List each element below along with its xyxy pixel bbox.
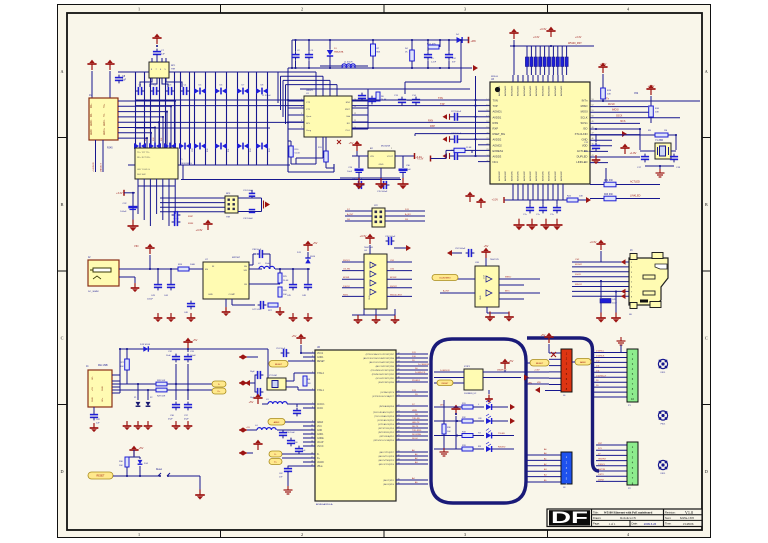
svg-text:R21 330: R21 330 <box>604 180 613 182</box>
svg-text:+3.3V: +3.3V <box>600 62 607 66</box>
svg-text:DIO-K: DIO-K <box>412 438 418 440</box>
svg-text:AVDD18C: AVDD18C <box>498 171 501 181</box>
svg-text:INTn: INTn <box>505 291 511 293</box>
svg-text:Title:: Title: <box>593 510 599 514</box>
svg-text:(XCK1/ADC8)PD5: (XCK1/ADC8)PD5 <box>377 419 395 422</box>
svg-text:MISO: MISO <box>581 104 588 108</box>
svg-text:(ADC13/OC1B/OC4B/PCINT)PB6: (ADC13/OC1B/OC4B/PCINT)PB6 <box>363 357 395 360</box>
svg-text:SD: SD <box>629 314 632 316</box>
svg-text:5: 5 <box>301 113 302 115</box>
svg-text:D: D <box>705 469 708 474</box>
svg-text:MOSI: MOSI <box>581 110 588 114</box>
svg-text:D0/RX: D0/RX <box>598 479 605 481</box>
svg-text:C51 10uF: C51 10uF <box>276 348 286 350</box>
svg-text:Y1 25M: Y1 25M <box>655 140 663 142</box>
svg-text:49: 49 <box>592 121 594 123</box>
svg-text:14: 14 <box>311 440 313 442</box>
svg-text:RESET: RESET <box>317 361 325 363</box>
svg-text:INTn: INTn <box>582 99 588 103</box>
svg-text:D0/TXN: D0/TXN <box>598 469 606 471</box>
svg-text:SSCK: SSCK <box>575 274 581 276</box>
svg-text:2: 2 <box>301 532 303 537</box>
svg-text:+3.3V: +3.3V <box>360 234 367 238</box>
svg-text:/MISO: /MISO <box>505 277 511 279</box>
svg-text:/SCS: /SCS <box>620 121 626 123</box>
svg-text:AGNDA33: AGNDA33 <box>535 85 538 96</box>
svg-text:RWT: RWT <box>345 109 351 111</box>
svg-text:10uF: 10uF <box>166 355 171 357</box>
svg-text:D0-WIZMISO: D0-WIZMISO <box>439 278 451 280</box>
svg-text:2: 2 <box>312 351 313 353</box>
svg-text:C38 10nF: C38 10nF <box>252 249 262 251</box>
svg-text:RST1: RST1 <box>343 294 349 296</box>
svg-text:10uH: 10uH <box>265 263 270 265</box>
svg-text:100nF: 100nF <box>190 355 196 357</box>
svg-text:Date:: Date: <box>632 522 638 526</box>
svg-text:ACTLED: ACTLED <box>630 181 640 184</box>
svg-text:SCSn: SCSn <box>580 121 588 125</box>
svg-text:ON: ON <box>478 418 482 420</box>
svg-text:C52: C52 <box>634 93 639 95</box>
svg-text:RESET: RESET <box>442 383 449 385</box>
svg-text:+5V: +5V <box>509 359 514 363</box>
svg-text:RXP: RXP <box>493 127 499 131</box>
svg-text:AGNDA33: AGNDA33 <box>541 85 544 96</box>
svg-text:LED1+: LED1+ <box>104 127 106 135</box>
svg-text:+3.3V: +3.3V <box>590 240 597 244</box>
svg-text:V1.0: V1.0 <box>685 510 693 515</box>
svg-text:Vport: Vport <box>306 115 312 118</box>
svg-text:4: 4 <box>301 106 302 108</box>
svg-text:FID1: FID1 <box>661 473 667 475</box>
svg-text:IC9P1: IC9P1 <box>464 366 471 368</box>
svg-text:Page:: Page: <box>593 522 600 526</box>
svg-text:D13/SCK: D13/SCK <box>596 355 605 357</box>
svg-text:UCAP: UCAP <box>317 441 324 444</box>
svg-text:D1/SCL: D1/SCL <box>598 464 606 466</box>
svg-text:22: 22 <box>486 144 488 146</box>
svg-text:(ICP1/ADC8)PD4: (ICP1/ADC8)PD4 <box>378 423 395 426</box>
svg-text:8: 8 <box>312 406 313 408</box>
svg-text:AVDD1: AVDD1 <box>493 115 502 119</box>
svg-text:PLO: PLO <box>346 130 351 132</box>
svg-text:/SO: /SO <box>583 127 588 131</box>
svg-text:15: 15 <box>311 444 313 446</box>
svg-text:10K: 10K <box>607 94 611 96</box>
svg-text:1M: 1M <box>308 383 311 385</box>
svg-text:C19 100nF: C19 100nF <box>352 179 363 181</box>
svg-text:AVDD18C: AVDD18C <box>510 171 513 181</box>
svg-text:18: 18 <box>311 460 313 462</box>
svg-text:SSCK1: SSCK1 <box>343 260 351 262</box>
svg-text:+1.8V: +1.8V <box>630 151 637 155</box>
svg-text:13:48:06: 13:48:06 <box>683 522 694 526</box>
svg-text:UD+: UD+ <box>102 397 104 402</box>
svg-text:(ADC12/OC1A/PCINT)PB5: (ADC12/OC1A/PCINT)PB5 <box>369 361 395 364</box>
svg-text:(T0/OC4D/ADC10)PD7: (T0/OC4D/ADC10)PD7 <box>373 411 395 414</box>
svg-text:11: 11 <box>354 120 356 122</box>
svg-text:DC_30MM: DC_30MM <box>88 291 99 293</box>
svg-text:RXIP: RXIP <box>188 216 194 218</box>
svg-text:17: 17 <box>311 456 313 458</box>
svg-text:DE-TX: DE-TX <box>412 426 419 428</box>
svg-text:(ADC6/TDO)PF6: (ADC6/TDO)PF6 <box>379 455 395 458</box>
svg-text:AGND2: AGND2 <box>493 143 503 147</box>
svg-text:GND: GND <box>92 397 94 402</box>
svg-text:SSCK2: SSCK2 <box>390 286 398 288</box>
svg-text:4: 4 <box>312 359 313 361</box>
svg-text:+5V: +5V <box>541 333 546 337</box>
svg-text:(RTS/OC4A/OC1C/PCINT)PB7: (RTS/OC4A/OC1C/PCINT)PB7 <box>366 353 395 356</box>
svg-text:+3.3V: +3.3V <box>492 199 499 202</box>
svg-text:16: 16 <box>486 110 488 112</box>
svg-text:RJ45: RJ45 <box>107 147 113 150</box>
svg-text:GND: GND <box>208 294 213 296</box>
svg-text:AREF: AREF <box>317 421 324 424</box>
svg-text:D-: D- <box>317 454 320 456</box>
svg-text:AVDD18C: AVDD18C <box>517 171 520 181</box>
svg-text:AVDD18C: AVDD18C <box>541 171 544 181</box>
svg-text:(ADC7/TDI)PF7: (ADC7/TDI)PF7 <box>380 451 395 454</box>
svg-text:MP2307: MP2307 <box>232 257 241 259</box>
svg-text:GNDE: GNDE <box>317 438 324 440</box>
svg-text:UGND: UGND <box>317 462 324 464</box>
svg-text:EXRES1: EXRES1 <box>493 149 504 153</box>
svg-text:DIO-RXA: DIO-RXA <box>412 433 421 436</box>
svg-text:SH1 SH2: SH1 SH2 <box>137 174 147 176</box>
svg-text:COMP: COMP <box>228 294 235 296</box>
svg-text:W5100 Ethernet with PoE mainbo: W5100 Ethernet with PoE mainboard <box>604 511 653 515</box>
svg-text:51.1K: 51.1K <box>295 153 301 155</box>
svg-text:1M: 1M <box>664 130 667 132</box>
svg-text:RSET_BG: RSET_BG <box>493 132 506 136</box>
svg-text:6: 6 <box>301 120 302 122</box>
svg-text:C52 100nF: C52 100nF <box>455 248 466 250</box>
svg-text:1: 1 <box>138 7 140 12</box>
svg-text:(SS/PCINT0)PB0: (SS/PCINT0)PB0 <box>378 382 395 384</box>
svg-text:R29 10R: R29 10R <box>157 396 166 398</box>
svg-text:+5V: +5V <box>313 241 318 245</box>
svg-text:VBus: VBus <box>317 466 323 468</box>
svg-text:LED Y LED G: LED Y LED G <box>137 169 150 171</box>
svg-text:17: 17 <box>486 116 488 118</box>
svg-text:75R: 75R <box>226 217 230 219</box>
svg-text:100uF: 100uF <box>147 299 154 301</box>
svg-text:AVDD18C: AVDD18C <box>560 171 563 181</box>
svg-text:+3.3V: +3.3V <box>648 84 655 88</box>
svg-text:RXLED1: RXLED1 <box>412 380 421 382</box>
svg-text:VIN: VIN <box>370 156 374 158</box>
svg-text:11: 11 <box>311 428 313 430</box>
svg-text:TD+ TCT TD-: TD+ TCT TD- <box>137 152 150 154</box>
svg-text:100nF: 100nF <box>584 151 591 153</box>
svg-text:TXD-RD: TXD-RD <box>412 418 420 420</box>
svg-text:LED0-: LED0- <box>91 119 93 126</box>
svg-text:16pF: 16pF <box>250 371 255 373</box>
svg-text:C32 100nF: C32 100nF <box>243 218 254 220</box>
svg-text:C27 100nF: C27 100nF <box>451 111 462 113</box>
svg-text:LED0: LED0 <box>91 129 93 135</box>
svg-text:GND1: GND1 <box>317 434 324 436</box>
svg-text:(INT0/SCL/OC0B)PD0: (INT0/SCL/OC0B)PD0 <box>374 440 395 442</box>
svg-text:+5V: +5V <box>349 141 354 145</box>
svg-text:Num:: Num: <box>665 516 671 520</box>
svg-text:AVDD18C: AVDD18C <box>554 171 557 181</box>
svg-text:GND1: GND1 <box>317 357 324 359</box>
svg-text:HWB: HWB <box>412 410 417 412</box>
svg-text:(ADC0)PF0: (ADC0)PF0 <box>383 483 394 486</box>
svg-text:20: 20 <box>486 132 488 134</box>
svg-text:W5100: W5100 <box>491 76 499 78</box>
svg-text:(SCLK/PCINT1)PB1: (SCLK/PCINT1)PB1 <box>376 378 395 380</box>
svg-text:AVCC1: AVCC1 <box>317 403 325 406</box>
svg-text:MOSI2: MOSI2 <box>390 277 397 279</box>
svg-text:10K: 10K <box>655 112 659 114</box>
svg-text:10K: 10K <box>120 366 124 368</box>
svg-text:TXD-RXD: TXD-RXD <box>412 430 422 432</box>
svg-text:VCC: VCC <box>317 426 322 428</box>
svg-text:+3.3V: +3.3V <box>534 370 540 372</box>
svg-text:R23 330: R23 330 <box>604 194 613 196</box>
svg-text:TXLED: TXLED <box>498 433 505 435</box>
svg-text:RESET: RESET <box>275 364 283 366</box>
svg-text:10K: 10K <box>119 465 123 467</box>
svg-text:AVCC: AVCC <box>317 407 324 410</box>
svg-text:XTAL1: XTAL1 <box>317 389 325 392</box>
svg-text:6229a-1305: 6229a-1305 <box>680 516 695 520</box>
svg-text:12.4K: 12.4K <box>466 147 472 149</box>
svg-text:DUPLED: DUPLED <box>577 155 588 159</box>
svg-text:W5100_RST: W5100_RST <box>390 294 403 296</box>
svg-text:TXP: TXP <box>493 104 498 108</box>
svg-text:12: 12 <box>354 113 356 115</box>
svg-text:RESET: RESET <box>97 475 106 478</box>
svg-text:TX-: TX- <box>104 113 106 117</box>
svg-text:+5V: +5V <box>139 446 144 450</box>
svg-text:24: 24 <box>486 155 488 157</box>
svg-text:(INT2/RXD1)PD2: (INT2/RXD1)PD2 <box>378 432 395 434</box>
svg-text:LED-TX: LED-TX <box>412 422 420 424</box>
svg-text:TX+: TX+ <box>104 103 106 108</box>
svg-text:3: 3 <box>464 7 466 12</box>
svg-text:(OC3A/#0)PC6: (OC3A/#0)PC6 <box>380 391 395 394</box>
svg-text:(ADC1)PF1: (ADC1)PF1 <box>383 479 394 482</box>
svg-text:+5V: +5V <box>246 427 250 429</box>
svg-text:FID1: FID1 <box>661 424 667 426</box>
svg-text:10uF: 10uF <box>406 169 411 171</box>
svg-text:A_INT: A_INT <box>443 290 450 293</box>
svg-text:XTAL2: XTAL2 <box>317 372 325 375</box>
svg-text:RESET: RESET <box>536 363 544 365</box>
svg-text:(ICP3/CLK0/OC4A)PC7: (ICP3/CLK0/OC4A)PC7 <box>372 395 395 398</box>
svg-text:2009.6.26: 2009.6.26 <box>644 522 657 526</box>
svg-text:13: 13 <box>311 436 313 438</box>
svg-text:AGNDA33: AGNDA33 <box>504 85 507 96</box>
svg-text:A: A <box>60 69 63 74</box>
svg-text:C47 3.3nF: C47 3.3nF <box>252 309 262 311</box>
svg-text:D-CS/MOSI: D-CS/MOSI <box>418 364 429 366</box>
svg-text:(INT6/AIN0)PE6: (INT6/AIN0)PE6 <box>379 405 395 408</box>
svg-text:47pF: 47pF <box>168 419 173 421</box>
svg-text:Mini USB: Mini USB <box>98 365 108 367</box>
svg-text:VIN: VIN <box>134 244 138 248</box>
svg-text:10uF: 10uF <box>612 303 617 305</box>
svg-text:C: C <box>705 336 708 341</box>
svg-text:47pF: 47pF <box>184 419 189 421</box>
svg-text:+3.3V: +3.3V <box>417 158 424 161</box>
svg-text:D-GND/CK: D-GND/CK <box>440 370 451 372</box>
svg-text:MI-SO: MI-SO <box>608 104 615 106</box>
svg-text:(INT1/SDA)PD1: (INT1/SDA)PD1 <box>379 435 394 438</box>
svg-text:GND: GND <box>480 295 482 300</box>
svg-text:D10/SS-CT: D10/SS-CT <box>596 375 607 377</box>
svg-text:B: B <box>61 202 64 207</box>
svg-text:CS_W2: CS_W2 <box>343 269 351 271</box>
svg-text:/MOSI: /MOSI <box>612 110 619 112</box>
svg-text:AVDD18C: AVDD18C <box>504 171 507 181</box>
svg-text:D-: D- <box>274 454 277 456</box>
svg-text:SMAJ58A: SMAJ58A <box>334 51 344 54</box>
svg-text:VOUT: VOUT <box>387 156 394 158</box>
svg-text:AGNDA33: AGNDA33 <box>554 85 557 96</box>
svg-text:+5V: +5V <box>292 334 297 338</box>
svg-text:AGNDA33: AGNDA33 <box>523 85 526 96</box>
svg-text:DS18B20_U2: DS18B20_U2 <box>464 393 477 395</box>
svg-text:AGNDA33: AGNDA33 <box>510 85 513 96</box>
svg-text:+5V: +5V <box>92 387 94 391</box>
svg-text:23: 23 <box>486 149 488 151</box>
svg-text:DF: DF <box>551 509 588 527</box>
svg-text:74HC244: 74HC244 <box>364 247 374 249</box>
svg-text:ATMEGA32U4-A: ATMEGA32U4-A <box>316 503 333 506</box>
svg-text:MOSI1: MOSI1 <box>343 277 350 279</box>
svg-text:H16101MCG: H16101MCG <box>180 163 192 165</box>
svg-text:Vneg: Vneg <box>306 130 312 132</box>
svg-text:C39 100nF: C39 100nF <box>385 236 396 238</box>
svg-text:10K: 10K <box>579 196 583 198</box>
svg-text:GND/RX: GND/RX <box>598 459 606 461</box>
svg-text:+3.3V: +3.3V <box>533 36 540 39</box>
svg-text:AVDD2: AVDD2 <box>493 138 502 142</box>
svg-text:26.4K: 26.4K <box>283 280 289 282</box>
svg-text:19: 19 <box>486 127 488 129</box>
svg-text:AVDD18C: AVDD18C <box>535 171 538 181</box>
svg-text:D: D <box>60 469 63 474</box>
svg-text:(ADC5/TMS)PF5: (ADC5/TMS)PF5 <box>379 459 395 462</box>
svg-text:25: 25 <box>486 160 488 162</box>
svg-text:TXN: TXN <box>493 99 498 103</box>
svg-text:14: 14 <box>486 99 488 101</box>
svg-text:D1/TX: D1/TX <box>598 474 604 476</box>
svg-text:3: 3 <box>464 532 466 537</box>
svg-text:GND: GND <box>102 386 104 391</box>
svg-text:2: 2 <box>391 148 392 150</box>
svg-text:XTLCLKIN: XTLCLKIN <box>575 132 588 136</box>
svg-text:D13 SS14: D13 SS14 <box>140 344 151 346</box>
svg-text:AVDD3: AVDD3 <box>493 155 502 159</box>
svg-text:+48V: +48V <box>471 41 477 43</box>
svg-text:LED1-: LED1- <box>104 119 106 126</box>
svg-text:5: 5 <box>312 371 313 373</box>
svg-text:+3.3V: +3.3V <box>575 36 582 39</box>
svg-text:AGNDA33: AGNDA33 <box>548 85 551 96</box>
svg-text:(T1/OC4D/ADC9)PD6: (T1/OC4D/ADC9)PD6 <box>374 415 395 418</box>
svg-text:AGNDA33: AGNDA33 <box>498 85 501 96</box>
svg-text:AGNDA33: AGNDA33 <box>560 85 563 96</box>
svg-text:1 of 1: 1 of 1 <box>609 522 616 526</box>
svg-text:1uF: 1uF <box>161 54 165 56</box>
svg-text:SSCK: SSCK <box>616 116 623 118</box>
svg-text:UVCC: UVCC <box>317 446 324 448</box>
svg-text:(ADC11/PCINT)PB4: (ADC11/PCINT)PB4 <box>376 365 395 368</box>
svg-text:100nF: 100nF <box>120 211 127 213</box>
svg-text:AREF: AREF <box>580 361 586 364</box>
svg-text:RO: RO <box>347 123 351 125</box>
svg-text:UD-: UD- <box>92 376 94 380</box>
svg-text:RXLED: RXLED <box>498 447 506 449</box>
svg-text:(PDO/MISO/PCINT3)PB3: (PDO/MISO/PCINT3)PB3 <box>371 370 395 372</box>
svg-text:1.2nF: 1.2nF <box>431 62 437 64</box>
svg-text:AVDD18C: AVDD18C <box>548 171 551 181</box>
svg-text:AGNDA33: AGNDA33 <box>517 85 520 96</box>
svg-text:D13/SCL: D13/SCL <box>596 351 605 353</box>
svg-text:D-GND/CK: D-GND/CK <box>415 372 426 374</box>
svg-text:+5V: +5V <box>249 400 254 404</box>
svg-text:RX: RX <box>478 446 482 448</box>
svg-text:MOSI2: MOSI2 <box>575 264 583 266</box>
svg-text:L1 33uH: L1 33uH <box>344 62 353 64</box>
svg-text:LINKLED: LINKLED <box>630 195 641 198</box>
svg-text:GND: GND <box>369 295 371 300</box>
svg-text:MC33269: MC33269 <box>381 146 391 148</box>
svg-text:AGNDA33: AGNDA33 <box>529 85 532 96</box>
svg-text:100K: 100K <box>190 264 196 266</box>
svg-text:+3.3V: +3.3V <box>540 27 547 31</box>
svg-text:AGND1: AGND1 <box>493 110 503 114</box>
svg-text:16: 16 <box>311 452 313 454</box>
svg-text:19: 19 <box>311 464 313 466</box>
svg-text:AVDD18C: AVDD18C <box>529 171 532 181</box>
svg-text:80K: 80K <box>377 52 381 54</box>
svg-text:15: 15 <box>486 104 488 106</box>
svg-text:13: 13 <box>354 106 356 108</box>
svg-text:2: 2 <box>301 7 303 12</box>
svg-text:Reset: Reset <box>156 468 162 471</box>
svg-text:SCLK: SCLK <box>580 115 587 119</box>
svg-text:GND: GND <box>317 430 322 432</box>
svg-text:VCC: VCC <box>482 275 484 280</box>
svg-text:FID1: FID1 <box>661 372 667 374</box>
svg-text:+5V: +5V <box>484 244 489 248</box>
svg-text:C15 100nF: C15 100nF <box>377 191 388 193</box>
svg-text:A: A <box>705 69 708 74</box>
svg-text:Y2 16M: Y2 16M <box>269 375 277 377</box>
svg-text:3: 3 <box>312 355 313 357</box>
svg-text:A_RX: A_RX <box>405 213 411 216</box>
svg-text:18: 18 <box>486 121 488 123</box>
svg-text:12: 12 <box>311 432 313 434</box>
svg-text:D10CK: D10CK <box>343 286 350 288</box>
svg-text:10uF: 10uF <box>347 171 352 173</box>
svg-text:50: 50 <box>592 116 594 118</box>
svg-text:W5100_RST: W5100_RST <box>568 42 582 45</box>
svg-text:GND: GND <box>379 164 384 166</box>
svg-text:+5V: +5V <box>193 338 198 342</box>
svg-text:D-: D- <box>218 384 221 386</box>
svg-text:SS14: SS14 <box>310 256 316 258</box>
svg-text:74HC125: 74HC125 <box>490 259 500 261</box>
svg-text:(PDI/MOSI/PCINT2)PB2: (PDI/MOSI/PCINT2)PB2 <box>372 374 395 376</box>
